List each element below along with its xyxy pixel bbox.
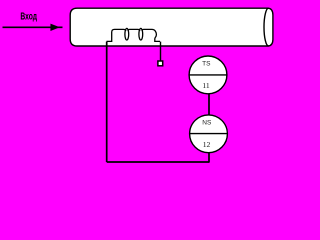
coil loop lens 1 (125, 28, 129, 40)
heater coil L1 (inside pipe) (107, 28, 161, 41)
pipe P1 (horizontal cylinder) (70, 8, 273, 46)
instrument TS 11 (temperature switch bubble) (189, 56, 227, 94)
wire: coil left lead down (106, 42, 108, 162)
wire: TS to NS (208, 94, 210, 116)
svg-text:TS: TS (202, 61, 211, 68)
svg-text:NS: NS (202, 120, 212, 127)
svg-text:11: 11 (202, 81, 210, 90)
wire: up to NS bottom (208, 153, 210, 163)
svg-text:12: 12 (203, 140, 211, 149)
instrument NS 12 (level switch bubble) (190, 115, 228, 153)
flow arrow (3, 24, 63, 30)
terminal X1 (small square) (158, 61, 163, 66)
wire: bottom run (107, 161, 209, 163)
coil loop lens 2 (139, 28, 143, 40)
svg-text:Вход: Вход (20, 11, 37, 22)
pipe right rim (near-side ellipse arc) (264, 8, 269, 46)
wire: coil right lead to terminal (160, 42, 162, 61)
